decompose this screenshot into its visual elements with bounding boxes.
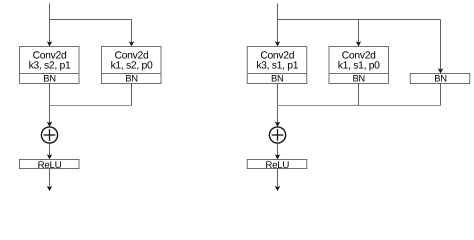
wire out of box R3 [440,84,442,106]
svg-text:k1, s2, p0: k1, s2, p0 [111,61,153,72]
arrowhead output left [47,186,52,191]
wire branch to identity BN box [440,20,442,70]
box R1 Conv2d k3,s1,p1 + BN [247,47,307,84]
wire split horizontal left [50,19,132,21]
wire out of box R2 [358,84,360,106]
wire input vertical left [49,4,51,43]
wire branch to left Conv2d k1 box [131,20,133,43]
wire merge horizontal right [278,105,441,107]
svg-text:BN: BN [434,72,446,83]
wire output left [49,169,51,187]
wire out of box L1 [49,84,51,106]
wire input vertical right [277,4,279,43]
wire merge horizontal left [50,105,132,107]
svg-text:k3, s2, p1: k3, s2, p1 [29,61,71,72]
adder circle-plus left [41,127,57,143]
wire split horizontal right [278,19,441,21]
arrowhead into right Conv2d k1 box [356,41,361,46]
box R3 identity BN [410,72,470,83]
box L2 Conv2d k1,s2,p0 + BN [102,47,162,84]
box R2 Conv2d k1,s1,p0 + BN [329,47,389,84]
wire out of box L2 [131,84,133,106]
wire out of box R1 [277,84,279,106]
svg-text:k1, s1, p0: k1, s1, p0 [338,61,380,72]
arrowhead into identity BN box [438,68,443,73]
box L1 Conv2d k3,s2,p1 + BN [20,47,80,84]
arrowhead into right ReLU [275,154,280,159]
adder circle-plus right [269,127,285,143]
arrowhead into left adder [47,122,52,127]
wire output right [277,169,279,187]
svg-text:k3, s1, p1: k3, s1, p1 [256,61,298,72]
svg-text:BN: BN [43,72,55,83]
arrowhead into left Conv2d k1 box [129,41,134,46]
svg-text:BN: BN [352,72,364,83]
box ReLU right [247,160,307,172]
svg-text:BN: BN [271,72,283,83]
svg-text:BN: BN [125,72,137,83]
wire branch to right Conv2d k1 box [358,20,360,43]
arrowhead into right adder [275,122,280,127]
arrowhead into right Conv2d k3 box [275,41,280,46]
arrowhead output right [275,186,280,191]
wire into right adder [277,106,279,124]
arrowhead into left ReLU [47,154,52,159]
box ReLU left [20,160,80,172]
wire adder to ReLU right [277,144,279,156]
arrowhead into left Conv2d k3 box [47,41,52,46]
wire into left adder [49,106,51,124]
wire adder to ReLU left [49,144,51,156]
